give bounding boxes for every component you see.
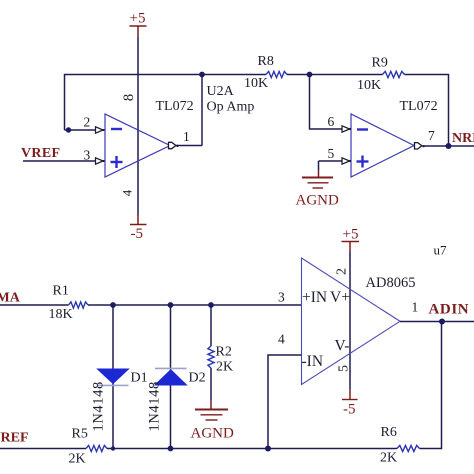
svg-text:D2: D2 (189, 371, 206, 386)
resistor R6 2K (397, 445, 419, 451)
svg-text:4: 4 (119, 189, 134, 196)
svg-text:R5: R5 (72, 427, 88, 442)
svg-text:VREF: VREF (21, 146, 60, 161)
svg-text:R6: R6 (381, 425, 397, 440)
U2B pin 5 connector (342, 158, 350, 164)
svg-text:7: 7 (428, 128, 435, 143)
wire: pin 2 inverting input (65, 129, 96, 131)
svg-text:Op Amp: Op Amp (207, 100, 255, 115)
svg-text:8: 8 (121, 94, 137, 101)
svg-text:AD8065: AD8065 (366, 275, 416, 291)
wire: -IN loop (268, 355, 302, 449)
U2A plus sign (111, 161, 123, 163)
svg-text:+5: +5 (130, 11, 146, 27)
svg-text:+IN: +IN (302, 289, 327, 306)
ground AGND (R2) (210, 400, 212, 410)
node: D1 bottom tap (111, 446, 115, 450)
diode D2 1N4148 (155, 367, 187, 369)
wire: U2A feedback loop top (65, 75, 203, 131)
wire: junction to R8 (202, 74, 266, 76)
svg-text:AGND: AGND (191, 426, 234, 442)
wire: pin 7 to NREF (424, 145, 474, 147)
svg-text:AGND: AGND (296, 193, 339, 209)
node: ADIN junction (439, 319, 445, 325)
wire: R2 branch upper (210, 305, 212, 346)
U2B minus sign (357, 128, 368, 130)
node: D2 bottom tap (168, 446, 174, 452)
wire: U2A output riser (201, 75, 203, 146)
svg-text:5: 5 (337, 365, 352, 372)
diode D1 1N4148 (98, 369, 129, 384)
resistor R5 2K (86, 445, 107, 451)
U2A pin 1 connector (169, 142, 176, 148)
svg-text:2K: 2K (380, 451, 397, 466)
node: feedback junction at U2A output (199, 72, 205, 78)
resistor R9 10K (383, 71, 405, 77)
svg-text:ADIN: ADIN (429, 302, 470, 318)
wire: +5 rail through U2A pins 8/4 (137, 37, 139, 215)
wire: R5 to R6 span (107, 448, 397, 450)
wire: R8 to node (287, 74, 310, 76)
wire: MA rail to R1 (0, 304, 69, 306)
svg-text:-IN: -IN (302, 353, 324, 370)
wire: node to R9 (310, 74, 383, 76)
op-amp U2A triangle (105, 114, 170, 177)
node: R8/R9/pin6 junction (307, 72, 313, 78)
svg-text:V-: V- (335, 338, 350, 355)
svg-text:2K: 2K (216, 360, 233, 375)
node: -IN bottom tap (265, 446, 271, 452)
wire: bottom rail left (0, 448, 86, 450)
op-amp U7 AD8065 triangle (302, 258, 401, 385)
power -5 for AD8065 (349, 389, 351, 400)
U2A pin 2 connector (96, 127, 104, 133)
resistor R8 10K (266, 71, 287, 77)
svg-text:NREF: NREF (452, 131, 474, 146)
svg-text:6: 6 (328, 114, 335, 129)
svg-text:-5: -5 (343, 402, 356, 418)
wire: U2A output pin 1 (176, 145, 202, 147)
svg-text:u7: u7 (434, 243, 448, 258)
svg-text:1N4148: 1N4148 (91, 381, 107, 431)
wire: VREF to pin 3 (23, 160, 96, 162)
wire: supply rail through AD8065 pins 2/5 (349, 252, 351, 389)
svg-text:3: 3 (278, 290, 285, 305)
svg-text:VREF: VREF (0, 431, 29, 446)
resistor R1 18K (69, 302, 89, 308)
U2B plus sign (357, 160, 369, 162)
resistor R2 2K (208, 346, 214, 368)
wire: feedback right riser (420, 322, 442, 449)
svg-text:+5: +5 (343, 227, 359, 243)
U2A pin 3 connector (96, 158, 104, 164)
svg-text:R8: R8 (258, 54, 274, 69)
svg-text:5: 5 (328, 146, 335, 161)
node: junction at pin 2 corner (66, 127, 71, 132)
ground AGND (U2B pin 5) (318, 170, 320, 178)
node: D1 tap (110, 302, 116, 308)
svg-text:R2: R2 (216, 345, 232, 360)
svg-text:1: 1 (183, 129, 190, 144)
svg-text:U2A: U2A (207, 84, 235, 99)
svg-text:R9: R9 (372, 56, 388, 71)
svg-text:R1: R1 (53, 284, 69, 299)
svg-text:18K: 18K (49, 307, 73, 322)
svg-text:2: 2 (335, 268, 350, 275)
svg-text:10K: 10K (244, 76, 268, 91)
svg-text:V+: V+ (330, 289, 350, 306)
wire: pin 5 to ground corner (319, 160, 344, 162)
svg-text:4: 4 (278, 332, 285, 347)
wire: D1 branch (112, 305, 114, 449)
U2B pin 7 connector (415, 143, 422, 149)
wire: output pin 1 to ADIN (400, 321, 474, 323)
U2B pin 6 connector (342, 126, 350, 132)
node: R2 tap (208, 302, 214, 308)
wire: R1 to AD8065 pin 3 (88, 304, 302, 306)
svg-text:1N4148: 1N4148 (147, 381, 163, 431)
op-amp U2B triangle (351, 114, 414, 177)
svg-text:TL072: TL072 (400, 99, 438, 114)
svg-text:1: 1 (412, 300, 419, 315)
svg-text:2: 2 (84, 115, 91, 130)
wire: D2 branch (170, 305, 172, 449)
svg-text:D1: D1 (131, 371, 148, 386)
svg-text:3: 3 (84, 148, 91, 163)
power -5 for U2A (137, 215, 139, 225)
svg-text:MA: MA (0, 291, 21, 306)
node: D2 tap (168, 302, 174, 308)
svg-text:2K: 2K (69, 452, 86, 467)
svg-text:10K: 10K (357, 78, 381, 93)
svg-text:TL072: TL072 (156, 99, 194, 114)
wire: R9 to output node (405, 75, 449, 147)
wire: node down to pin 6 (310, 75, 344, 130)
wire: R2 to ground (210, 368, 212, 400)
svg-text:-5: -5 (131, 226, 144, 242)
node: NREF junction (446, 143, 452, 149)
U2A minus sign (111, 128, 122, 130)
